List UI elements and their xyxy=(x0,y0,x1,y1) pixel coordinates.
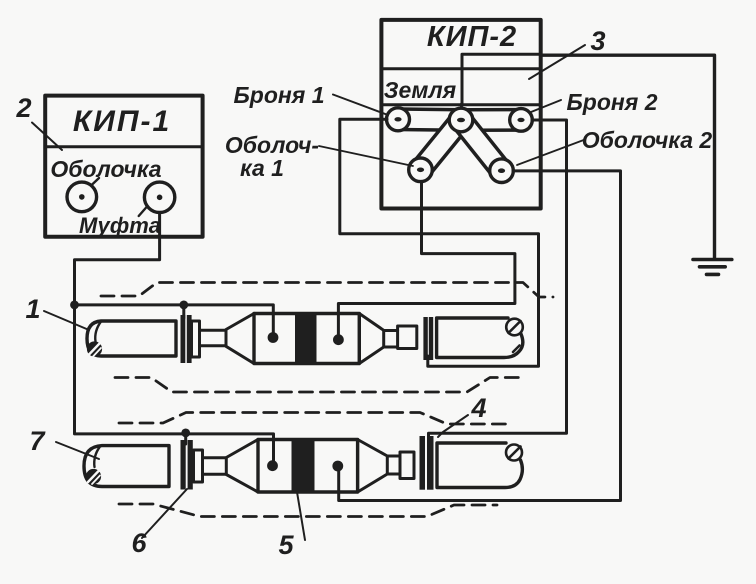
cone bottom right xyxy=(358,440,388,493)
svg-text:Броня 2: Броня 2 xyxy=(566,89,657,115)
tube top right xyxy=(384,331,398,348)
cable 2 right section xyxy=(437,443,522,488)
svg-text:4: 4 xyxy=(470,393,486,423)
cable 1 right section xyxy=(437,318,523,358)
pointer Муфта to terminal xyxy=(139,207,147,216)
svg-text:1: 1 xyxy=(25,294,40,324)
ground symbol xyxy=(693,260,732,275)
clamp 6-analog top left (бандаж) xyxy=(181,315,192,363)
cable 1 left section xyxy=(87,321,176,356)
svg-text:ка 1: ка 1 xyxy=(240,155,284,181)
КИП-2 box xyxy=(381,20,540,209)
dashed outline bottom assembly lower xyxy=(119,504,497,517)
svg-text:Оболочка 2: Оболочка 2 xyxy=(582,127,713,153)
svg-text:3: 3 xyxy=(590,26,605,56)
dashed outline top assembly upper xyxy=(101,283,553,298)
wire Броня2 to bottom cable right clamp xyxy=(429,120,567,441)
terminal Земля xyxy=(449,108,473,132)
svg-text:Земля: Земля xyxy=(384,77,457,103)
coupling body top (муфта) xyxy=(254,314,359,364)
hatch on cable 1 right end xyxy=(506,319,523,352)
pointer 4 xyxy=(438,415,468,437)
node sheath dot top left xyxy=(268,332,279,343)
cable 2 left section xyxy=(84,446,169,487)
node junction top clamp xyxy=(179,301,188,310)
band 5 bottom (black band) xyxy=(292,438,315,494)
flange top right xyxy=(398,326,417,349)
pointer Оболочка to terminal xyxy=(90,178,100,187)
node junction bottom clamp xyxy=(181,429,190,438)
Земля strip bottom line xyxy=(381,103,462,106)
КИП-1 box xyxy=(45,96,202,237)
dashed outline bottom assembly upper xyxy=(119,413,509,425)
svg-text:Муфта: Муфта xyxy=(79,213,161,238)
wire branch to top cable clamp xyxy=(182,305,185,318)
pointer 3 xyxy=(529,45,585,79)
stub Земля terminal to plate xyxy=(460,104,463,110)
node junction top xyxy=(70,301,79,310)
tube bottom left xyxy=(203,458,227,475)
flange bottom right xyxy=(400,452,414,479)
dashed outline top assembly lower xyxy=(115,378,524,393)
cone bottom left xyxy=(226,440,258,493)
pointer Оболочка 2 xyxy=(517,140,585,166)
svg-text:7: 7 xyxy=(29,426,46,456)
clamp 4 bottom right (бандаж) xyxy=(420,436,434,490)
pointer 6 xyxy=(142,489,187,538)
wire branch to top coupling sheath xyxy=(75,305,274,338)
hatch on cable 2 left end xyxy=(86,469,101,484)
svg-text:КИП-1: КИП-1 xyxy=(73,105,171,138)
svg-text:КИП-2: КИП-2 xyxy=(427,21,517,53)
wire ground: plate to earth electrode xyxy=(541,55,715,257)
terminal Оболочка КИП-1 xyxy=(67,182,97,212)
terminal Оболочка 1 xyxy=(409,158,433,182)
pointer Оболочка 1 xyxy=(319,146,413,166)
bus link Земля-Оболочка2 xyxy=(461,120,502,171)
node sheath dot bottom left xyxy=(267,460,278,471)
pointer Броня 1 xyxy=(333,95,388,116)
node sheath dot bottom right xyxy=(332,461,343,472)
pointer 5 xyxy=(297,492,305,540)
wire Муфта: КИП-1 to both couplings xyxy=(75,213,274,466)
bus link Броня1-Земля xyxy=(398,107,461,132)
hatch on cable 2 right end xyxy=(506,445,522,461)
tube bottom right xyxy=(387,456,400,474)
pointer 7 xyxy=(56,442,99,459)
band 5-analog top (black band) xyxy=(295,312,317,365)
clamp top right (бандаж) xyxy=(423,317,433,360)
pointer 1 xyxy=(44,311,89,330)
terminal Броня 1 xyxy=(387,108,410,131)
flange top left xyxy=(192,321,200,357)
КИП-1 title divider xyxy=(45,145,202,148)
cone top left xyxy=(226,314,254,364)
bus link Земля-Броня2 xyxy=(461,108,521,132)
inner rectangle 3 (ground link plate) xyxy=(462,54,541,104)
wire branch to bottom cable clamp xyxy=(184,434,187,444)
wire Оболочка1 to top coupling right sheath xyxy=(338,182,515,340)
coupling body bottom (муфта 5) xyxy=(258,440,358,493)
cone top right xyxy=(359,314,383,364)
wire Броня1 to top cable right clamp xyxy=(340,119,539,366)
clamp 6 bottom left (бандаж) xyxy=(181,440,193,490)
terminal Муфта КИП-1 xyxy=(144,182,174,212)
terminal Оболочка 2 xyxy=(490,159,514,183)
wire Оболочка2 to bottom coupling right sheath xyxy=(339,171,621,501)
tube top left xyxy=(200,330,227,346)
terminal Броня 2 xyxy=(510,109,533,132)
svg-text:Оболочка: Оболочка xyxy=(50,156,161,182)
flange bottom left xyxy=(194,450,203,482)
КИП-2 title divider xyxy=(381,67,540,70)
pointer Броня 2 xyxy=(531,100,561,112)
node sheath dot top right xyxy=(333,334,344,345)
hatch on cable 1 left end xyxy=(87,341,102,356)
svg-text:6: 6 xyxy=(131,528,147,558)
bus link Земля-Оболочка1 xyxy=(421,120,462,170)
pointer 2 xyxy=(32,123,62,151)
svg-text:5: 5 xyxy=(278,530,294,560)
svg-text:2: 2 xyxy=(15,93,31,123)
svg-text:Броня 1: Броня 1 xyxy=(233,82,324,108)
